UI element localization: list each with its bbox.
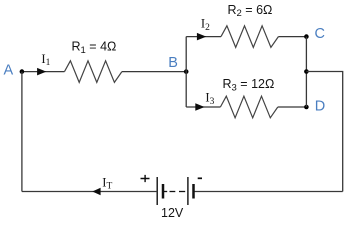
wire battery to bottom left (22, 191, 157, 193)
svg-text:C: C (315, 26, 325, 42)
battery minus sign (198, 177, 202, 179)
svg-text:B: B (168, 55, 178, 71)
node C (304, 34, 309, 39)
wire C to D vertical (305, 37, 307, 107)
svg-text:D: D (315, 98, 325, 114)
current arrow I2 (197, 33, 206, 41)
battery dash 1 (170, 191, 176, 193)
battery cell 2 short plate (192, 184, 195, 199)
battery cell 1 short plate (162, 184, 165, 199)
resistor R2 (221, 26, 278, 48)
svg-text:R2 = 6Ω: R2 = 6Ω (228, 3, 273, 19)
wire R2 to C (278, 36, 306, 38)
current arrow I1 (37, 68, 46, 76)
node junction CD (304, 69, 309, 74)
wire B to R2 (186, 36, 221, 38)
wire A to R1 (22, 71, 65, 73)
svg-text:12V: 12V (161, 206, 184, 220)
resistor R3 (220, 96, 277, 118)
battery dash 2 (179, 191, 185, 193)
wire bottom right to battery (194, 191, 343, 193)
wire B vertical branch (185, 37, 187, 107)
battery cell 1 long plate (156, 177, 158, 205)
battery dashed link stub (164, 191, 168, 193)
wire B to R3 (186, 106, 220, 108)
node A (20, 69, 25, 74)
wire left vertical (21, 72, 23, 192)
node D (304, 105, 309, 110)
current arrow IT (92, 188, 100, 196)
battery cell 2 long plate (187, 177, 189, 205)
svg-text:R1 = 4Ω: R1 = 4Ω (72, 40, 117, 56)
current arrow I3 (195, 103, 204, 111)
wire R3 to D (278, 106, 307, 108)
svg-text:R3 = 12Ω: R3 = 12Ω (223, 77, 275, 93)
resistor R1 (65, 61, 122, 83)
wire junction to right corner (306, 72, 342, 192)
battery plus sign (141, 175, 150, 182)
node B (184, 69, 189, 74)
svg-text:A: A (4, 62, 14, 78)
wire R1 to B (122, 71, 186, 73)
